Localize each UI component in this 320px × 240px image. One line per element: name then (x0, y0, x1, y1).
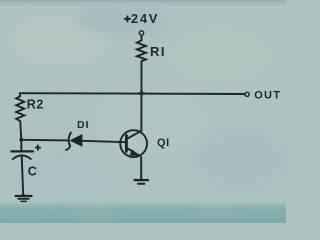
label +24V plus mark (125, 16, 130, 21)
wire node to capacitor (20, 140, 22, 151)
wire output line (20, 92, 245, 95)
terminal OUT (245, 92, 249, 96)
label OUT (254, 90, 281, 102)
svg-text:DI: DI (77, 119, 90, 131)
label R2 (27, 98, 44, 112)
wire R1 to collector node (140, 61, 142, 130)
resistor R2 (16, 96, 24, 121)
wire R2 to cap node (19, 121, 22, 139)
label R1 (150, 44, 166, 59)
svg-text:QI: QI (157, 137, 170, 149)
resistor R1 (137, 41, 146, 62)
wire node to diode cathode (21, 139, 68, 142)
svg-text:C: C (28, 165, 37, 179)
node junction R1/OUT (139, 91, 145, 97)
wire supply to R1 (141, 35, 143, 40)
terminal +24V (139, 31, 143, 35)
svg-text:24V: 24V (131, 12, 159, 26)
transistor Q1 circle (120, 130, 147, 157)
ground C junction blob (22, 194, 25, 197)
diode D1 triangle (70, 135, 82, 146)
wire emitter to ground (140, 157, 142, 179)
svg-text:RI: RI (150, 44, 166, 59)
capacitor C curved plate (13, 155, 31, 159)
capacitor C plus sign (36, 145, 40, 149)
diode D1 cathode bar (66, 133, 71, 151)
top dark scan band (0, 0, 286, 8)
label Q1 (157, 137, 170, 149)
transistor Q1 collector stroke (127, 131, 141, 139)
ground C (16, 196, 32, 201)
transistor Q1 emitter stroke (127, 148, 140, 156)
transistor Q1 emitter arrow (130, 149, 140, 156)
ground Q1 (135, 180, 148, 184)
label C (28, 165, 37, 179)
label D1 (77, 119, 90, 131)
wire capacitor to ground (22, 156, 24, 195)
svg-text:R2: R2 (27, 98, 44, 112)
wire diode to base (82, 141, 126, 142)
label +24V text (131, 12, 159, 26)
bottom dark scan band (0, 201, 286, 223)
svg-text:OUT: OUT (254, 90, 281, 102)
wire left corner down to R2 (19, 93, 21, 96)
node junction R2/C/D1 (19, 138, 23, 142)
capacitor C top plate (11, 150, 33, 152)
transistor Q1 base bar (125, 135, 128, 151)
